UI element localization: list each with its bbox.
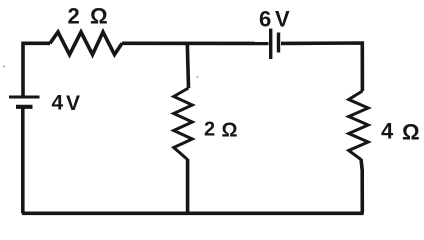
label 4 ohm for R3 [381, 119, 420, 145]
svg-text:V: V [275, 7, 290, 32]
speck near left edge [3, 66, 5, 68]
label 4 V for V1 [52, 92, 81, 116]
label 2 ohm for R1 [68, 4, 108, 29]
resistor R1 2ohm horizontal [50, 32, 122, 55]
wire top middle segment [122, 41, 269, 45]
battery V1 4V short plate [16, 105, 33, 109]
battery V2 6V left plate [269, 29, 272, 59]
svg-text:Ω: Ω [90, 4, 108, 29]
svg-text:Ω: Ω [222, 120, 238, 142]
wire middle branch bottom lead [186, 159, 190, 213]
svg-text:6: 6 [259, 7, 271, 32]
battery V1 4V long plate [9, 96, 40, 99]
label 2 ohm for R2 [204, 119, 238, 142]
wire middle branch top lead [187, 43, 188, 88]
battery V2 6V right plate [277, 33, 280, 53]
wire left vertical bottom [21, 108, 25, 213]
speck near middle junction [197, 76, 199, 78]
svg-text:Ω: Ω [402, 120, 420, 145]
svg-text:4: 4 [52, 92, 64, 115]
wire top-left corner and segment to R1 [23, 43, 50, 96]
label 6 V for V2 [259, 7, 290, 32]
wire right vertical bottom and bottom wire [22, 159, 362, 213]
svg-text:4: 4 [381, 119, 394, 144]
resistor R2 2ohm vertical [174, 88, 193, 160]
resistor R3 4ohm vertical [349, 91, 369, 160]
wire top-right segment and corner down [281, 43, 362, 91]
svg-text:2: 2 [68, 4, 80, 29]
svg-text:2: 2 [204, 119, 215, 141]
svg-text:V: V [66, 92, 80, 115]
